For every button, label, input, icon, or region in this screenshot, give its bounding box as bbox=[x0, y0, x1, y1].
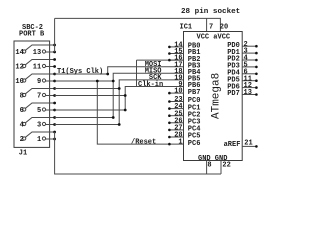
svg-text:2: 2 bbox=[20, 136, 24, 144]
svg-text:5: 5 bbox=[37, 107, 41, 115]
svg-text:1: 1 bbox=[37, 136, 41, 144]
svg-text:aREF: aREF bbox=[224, 141, 241, 149]
svg-text:14: 14 bbox=[15, 49, 23, 57]
svg-text:PORT B: PORT B bbox=[19, 31, 45, 39]
svg-text:T1(Sys Clk): T1(Sys Clk) bbox=[57, 68, 103, 76]
svg-text:IC1: IC1 bbox=[180, 24, 193, 32]
svg-text:13: 13 bbox=[33, 49, 41, 57]
svg-text:7: 7 bbox=[37, 93, 41, 101]
svg-text:PB7: PB7 bbox=[188, 89, 201, 97]
svg-text:10: 10 bbox=[15, 78, 23, 86]
svg-text:28 pin socket: 28 pin socket bbox=[181, 8, 240, 16]
svg-text:20: 20 bbox=[220, 24, 228, 32]
svg-text:3: 3 bbox=[37, 122, 41, 130]
svg-text:1: 1 bbox=[178, 139, 182, 147]
svg-text:VCC aVCC: VCC aVCC bbox=[197, 33, 231, 41]
svg-text:8: 8 bbox=[20, 93, 24, 101]
svg-text:21: 21 bbox=[244, 140, 252, 148]
svg-text:/Reset: /Reset bbox=[131, 138, 156, 146]
svg-text:7: 7 bbox=[209, 24, 213, 32]
svg-text:12: 12 bbox=[15, 64, 23, 72]
svg-text:9: 9 bbox=[37, 78, 41, 86]
svg-text:4: 4 bbox=[20, 122, 24, 130]
svg-text:Clk-in: Clk-in bbox=[138, 81, 163, 89]
svg-text:ATmega8: ATmega8 bbox=[211, 73, 223, 119]
svg-text:PC6: PC6 bbox=[188, 140, 201, 148]
svg-text:13: 13 bbox=[244, 89, 252, 97]
svg-text:J1: J1 bbox=[19, 150, 27, 158]
svg-text:6: 6 bbox=[20, 107, 24, 115]
svg-text:10: 10 bbox=[174, 88, 182, 96]
svg-text:22: 22 bbox=[222, 162, 230, 170]
svg-text:PD7: PD7 bbox=[227, 90, 240, 98]
svg-text:11: 11 bbox=[33, 64, 41, 72]
svg-text:8: 8 bbox=[207, 162, 211, 170]
